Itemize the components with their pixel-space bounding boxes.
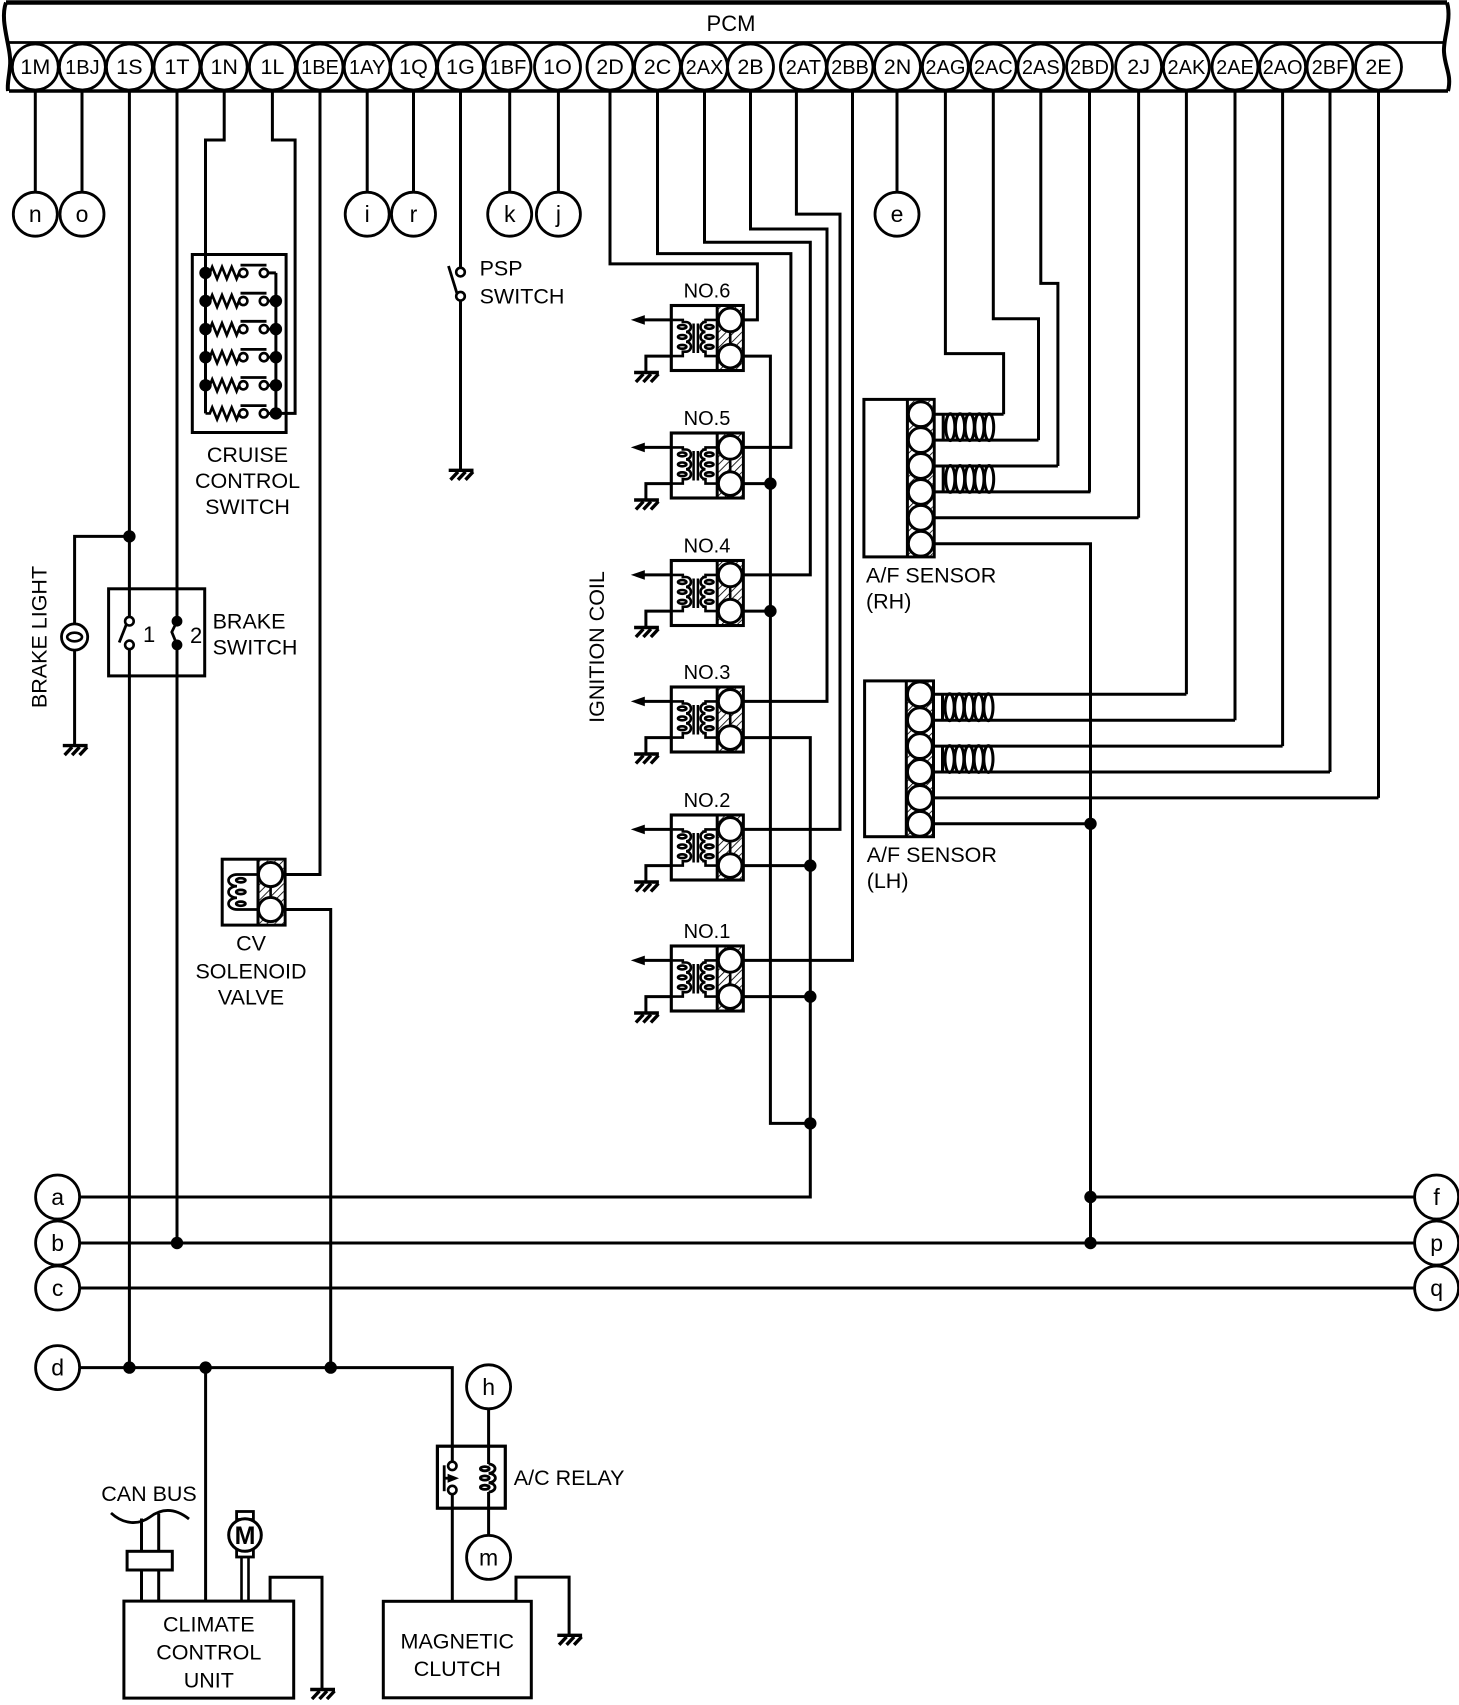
svg-text:NO.3: NO.3: [684, 662, 731, 684]
svg-text:CLIMATE: CLIMATE: [163, 1612, 255, 1636]
svg-text:CAN BUS: CAN BUS: [101, 1482, 197, 1506]
svg-text:BRAKE LIGHT: BRAKE LIGHT: [27, 566, 51, 708]
svg-text:M: M: [235, 1522, 256, 1550]
svg-text:2E: 2E: [1365, 55, 1391, 79]
svg-text:2BB: 2BB: [831, 57, 869, 79]
svg-text:2AE: 2AE: [1216, 57, 1254, 79]
svg-text:SWITCH: SWITCH: [480, 285, 565, 309]
svg-text:CONTROL: CONTROL: [195, 469, 300, 493]
svg-text:h: h: [482, 1374, 495, 1400]
svg-text:1BJ: 1BJ: [65, 57, 99, 79]
svg-text:IGNITION COIL: IGNITION COIL: [585, 571, 609, 723]
svg-text:i: i: [365, 201, 370, 227]
svg-text:n: n: [29, 201, 42, 227]
svg-text:1M: 1M: [20, 55, 50, 79]
svg-text:1BF: 1BF: [490, 57, 527, 79]
svg-text:2AT: 2AT: [786, 57, 821, 79]
svg-text:CV: CV: [236, 932, 267, 956]
svg-text:p: p: [1430, 1230, 1443, 1256]
svg-text:d: d: [51, 1355, 64, 1381]
svg-text:2C: 2C: [644, 55, 671, 79]
svg-text:b: b: [51, 1230, 64, 1256]
svg-text:CONTROL: CONTROL: [156, 1640, 261, 1664]
svg-text:1L: 1L: [260, 55, 284, 79]
svg-text:UNIT: UNIT: [184, 1668, 234, 1692]
svg-text:1N: 1N: [210, 55, 237, 79]
svg-text:2AC: 2AC: [974, 57, 1013, 79]
svg-text:r: r: [410, 201, 418, 227]
svg-text:A/C RELAY: A/C RELAY: [514, 1466, 625, 1490]
svg-text:2J: 2J: [1127, 55, 1150, 79]
svg-text:CLUTCH: CLUTCH: [414, 1657, 501, 1681]
svg-text:PSP: PSP: [480, 257, 523, 281]
svg-text:a: a: [51, 1184, 64, 1210]
svg-text:1BE: 1BE: [301, 57, 339, 79]
svg-text:m: m: [479, 1544, 498, 1570]
svg-text:SWITCH: SWITCH: [213, 636, 298, 660]
svg-text:NO.6: NO.6: [684, 281, 731, 303]
svg-text:1Q: 1Q: [399, 55, 428, 79]
svg-text:A/F SENSOR: A/F SENSOR: [866, 564, 996, 588]
svg-text:NO.5: NO.5: [684, 408, 731, 430]
svg-text:MAGNETIC: MAGNETIC: [401, 1630, 514, 1654]
svg-text:NO.4: NO.4: [684, 536, 731, 558]
svg-text:A/F SENSOR: A/F SENSOR: [867, 843, 997, 867]
svg-text:(RH): (RH): [866, 590, 911, 614]
svg-text:SWITCH: SWITCH: [205, 495, 290, 519]
svg-text:2AG: 2AG: [925, 57, 965, 79]
svg-text:k: k: [504, 201, 516, 227]
svg-text:2AX: 2AX: [686, 57, 724, 79]
svg-text:PCM: PCM: [707, 11, 756, 36]
svg-text:f: f: [1433, 1184, 1440, 1210]
svg-text:2AS: 2AS: [1022, 57, 1060, 79]
svg-text:2: 2: [190, 623, 202, 648]
svg-text:2N: 2N: [884, 55, 911, 79]
svg-text:2B: 2B: [737, 55, 763, 79]
svg-text:1S: 1S: [116, 55, 142, 79]
svg-text:CRUISE: CRUISE: [207, 443, 288, 467]
svg-text:2BF: 2BF: [1312, 57, 1349, 79]
svg-text:BRAKE: BRAKE: [213, 610, 286, 634]
svg-text:e: e: [891, 201, 904, 227]
svg-text:1T: 1T: [164, 55, 189, 79]
svg-text:SOLENOID: SOLENOID: [195, 960, 306, 984]
svg-text:q: q: [1430, 1275, 1443, 1301]
svg-text:2D: 2D: [596, 55, 623, 79]
svg-text:NO.2: NO.2: [684, 790, 731, 812]
svg-text:(LH): (LH): [867, 869, 909, 893]
svg-text:2AK: 2AK: [1167, 57, 1205, 79]
svg-text:1O: 1O: [543, 55, 572, 79]
svg-text:2AO: 2AO: [1263, 57, 1303, 79]
svg-text:1AY: 1AY: [349, 57, 385, 79]
svg-text:o: o: [76, 201, 89, 227]
svg-text:NO.1: NO.1: [684, 921, 731, 943]
svg-text:1G: 1G: [446, 55, 475, 79]
svg-text:2BD: 2BD: [1070, 57, 1109, 79]
svg-text:1: 1: [143, 622, 155, 647]
svg-text:VALVE: VALVE: [218, 986, 284, 1010]
svg-text:c: c: [52, 1275, 64, 1301]
svg-text:j: j: [555, 201, 561, 227]
